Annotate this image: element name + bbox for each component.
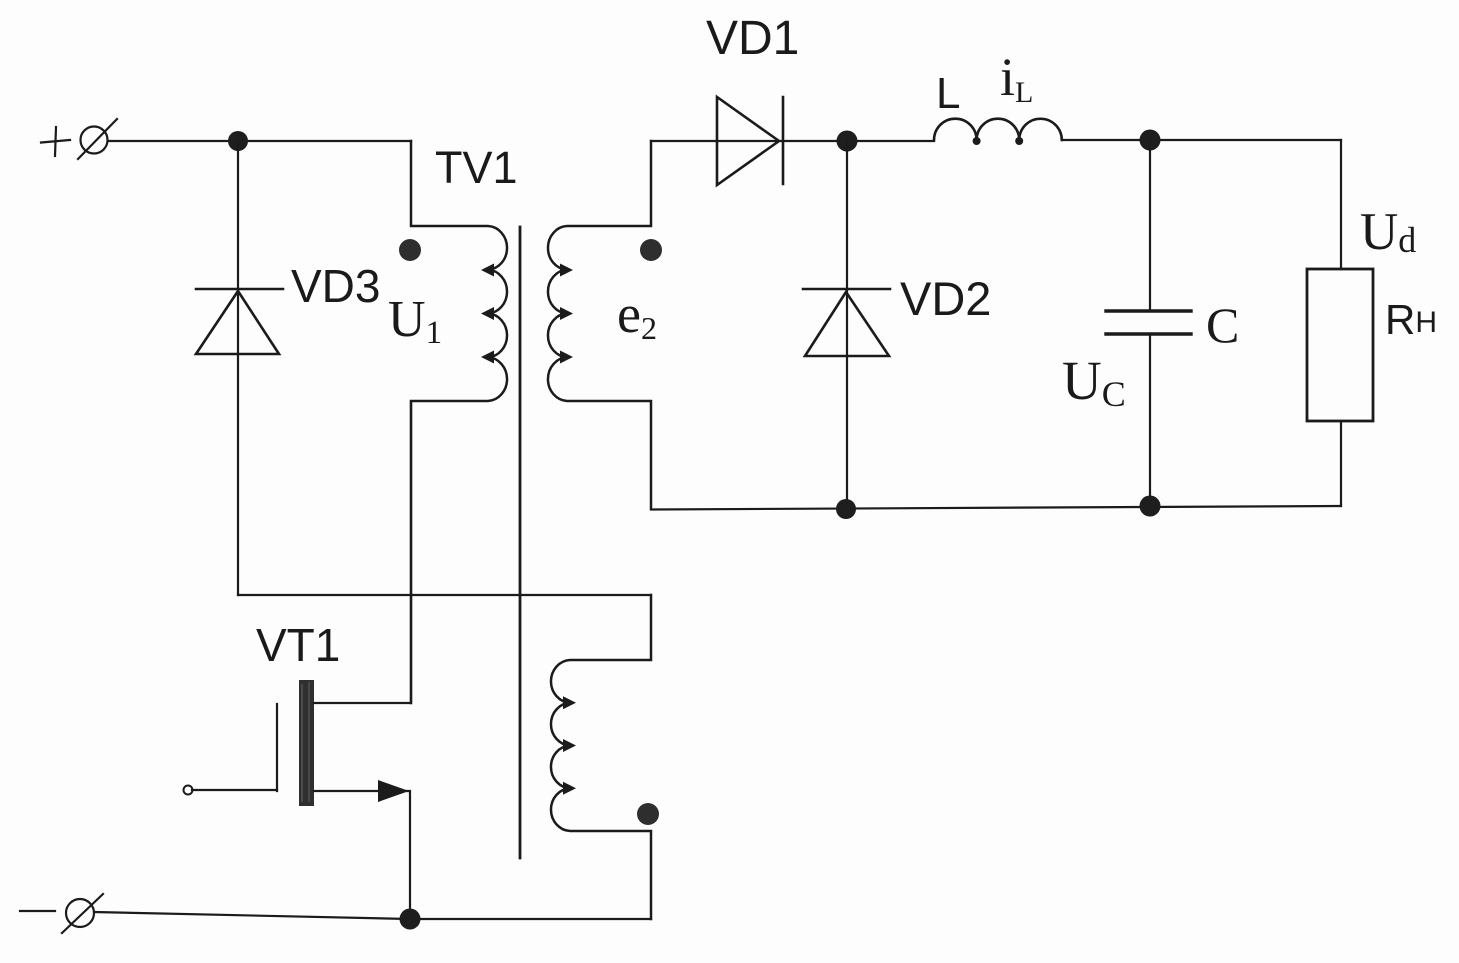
wire RH bottom bbox=[1340, 421, 1342, 506]
diode VD2 bbox=[803, 289, 890, 356]
tertiary winding cusp marks bbox=[563, 696, 576, 795]
wire C top bbox=[1149, 140, 1151, 311]
terminal minus sign bbox=[20, 910, 55, 912]
svg-text:VD2: VD2 bbox=[900, 272, 991, 325]
node gate terminal circle bbox=[184, 786, 193, 795]
svg-text:C: C bbox=[1206, 297, 1239, 353]
wire L to node bbox=[1062, 139, 1341, 141]
terminal - circle bbox=[62, 894, 103, 933]
wire VT1 drain bbox=[314, 402, 411, 703]
wire bottom-right rail bbox=[651, 506, 1341, 510]
wire horizontal y595 bbox=[238, 594, 651, 596]
wire VT1 gate bbox=[192, 789, 277, 791]
secondary winding cusp marks bbox=[560, 264, 573, 364]
terminal + circle bbox=[78, 119, 117, 159]
transformer TV1 primary winding bbox=[411, 141, 507, 703]
node secondary phase dot bbox=[640, 239, 662, 261]
wire top-left rail bbox=[108, 140, 411, 142]
svg-text:VD3: VD3 bbox=[291, 260, 380, 312]
node junction VD1-VD2 bbox=[837, 131, 858, 152]
node primary phase dot bbox=[399, 239, 421, 261]
wire bottom-left rail bbox=[94, 912, 651, 919]
svg-text:TV1: TV1 bbox=[435, 142, 518, 193]
transformer TV1 tertiary winding bbox=[551, 595, 651, 919]
wire VD2 branch bbox=[846, 141, 848, 509]
capacitor C bbox=[1106, 311, 1191, 334]
wire right rail down bbox=[1340, 140, 1342, 269]
primary winding cusp marks bbox=[481, 264, 494, 364]
node junction top-left bbox=[228, 131, 248, 151]
diode VD3 bbox=[196, 289, 283, 354]
transformer TV1 secondary winding bbox=[548, 141, 651, 509]
resistor RH bbox=[1307, 269, 1373, 421]
svg-text:VD1: VD1 bbox=[706, 12, 799, 65]
node junction C bottom bbox=[1140, 496, 1161, 517]
node junction VD2 bottom bbox=[836, 499, 856, 519]
wire C bottom bbox=[1149, 334, 1151, 507]
transformer core bbox=[519, 227, 522, 858]
wire top-right rail bbox=[651, 140, 934, 142]
wire VT1 source bbox=[314, 791, 410, 919]
node junction VT1 source bottom bbox=[400, 909, 421, 930]
transistor VT1 gate electrode bbox=[276, 704, 278, 791]
node junction L-C bbox=[1140, 130, 1161, 151]
transistor VT1 channel bar bbox=[299, 680, 314, 806]
node tertiary phase dot bbox=[637, 803, 659, 825]
svg-text:VT1: VT1 bbox=[256, 619, 340, 671]
diode VD1 bbox=[717, 97, 783, 185]
wire VD3 branch vertical bbox=[237, 141, 239, 595]
inductor L bbox=[934, 119, 1062, 140]
terminal plus sign bbox=[41, 127, 70, 156]
svg-text:L: L bbox=[936, 69, 960, 118]
transistor VT1 source arrow bbox=[378, 780, 409, 802]
